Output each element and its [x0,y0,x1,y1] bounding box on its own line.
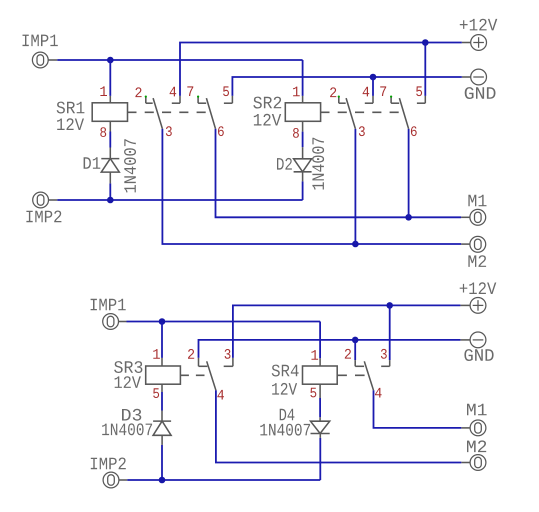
wire SR3 pin1 drop [161,322,163,358]
relay coil SR1 [92,103,127,122]
label M2 (top) [468,255,486,267]
value D3 1N4007 [102,423,152,435]
terminal +12V (bottom) [470,298,486,314]
pin of terminal GND [462,76,471,78]
junction GND/SR4.2 [352,337,359,344]
cathode lead D4 [319,434,321,438]
terminal GND (bottom) [470,332,486,348]
junction GND/SR2.4 [370,74,377,81]
junction M1/SR2.6 [405,214,412,221]
pin 2 foot SR4 [355,365,364,367]
pin 5 stub SR4 [319,384,321,398]
pin number SR1.6 [218,126,224,136]
wire net +12V row (bottom) [233,305,461,358]
pin 5 stub SR2 [424,96,426,103]
wire net IMP1 row (bottom) [127,321,321,323]
junction IMP2/D1 [107,197,114,204]
pin number SR2.2 [330,87,336,97]
wire SR1 pin1 drop [109,60,111,96]
label D4 [280,409,295,421]
pin number SR1.7 [187,86,193,96]
pin number SR1.2 [135,87,141,97]
pin 5 stub SR3 [161,384,163,392]
pin number SR2.6 [411,126,417,136]
pin number SR4.1 [311,350,318,360]
contact arm SR1 7-6 [206,98,215,129]
pin 7 foot SR2 [391,102,399,104]
pin 2 stub SR1 [145,97,147,104]
wire SR2 pin5 drop [424,43,426,96]
pin 1 stub SR3 [161,358,163,366]
pin number SR2.4 [363,87,370,97]
pin 2 foot SR3 [199,365,208,367]
wire net M1 row (top) [216,129,462,218]
mechanical link SR2 [320,111,399,113]
pin number SR2.7 [380,86,386,96]
pin 7 stub SR2 [390,97,392,104]
pin of terminal M1 [461,216,470,218]
value SR2 12V [254,114,281,126]
pin of terminal M1 b [461,427,470,429]
mechanical link SR3 [180,374,204,376]
wire net IMP2 row (top) [57,199,302,201]
pin of terminal IMP1 b [119,321,127,323]
pin of terminal +12V [462,42,471,44]
pin 2 foot SR2 [339,102,346,104]
pin 3 foot SR4 [381,365,390,367]
pin number SR2.3 [359,126,365,136]
pin number SR2.5 [416,86,422,96]
wire SR4 pin1 drop [319,322,321,359]
wire D1 to IMP2 rail [109,183,111,200]
terminal IMP2 (bottom) [103,472,119,488]
wire net IMP2 row (bottom) [127,479,320,481]
cathode lead D3 [161,435,163,445]
wire net M1 row (bottom) [374,390,462,428]
pin number SR2.1 [293,87,300,97]
wire net +12V row (top) [180,43,462,96]
contact arm SR2 7-6 [399,98,408,129]
mechanical link SR1 [127,111,206,113]
label SR1 [57,102,85,114]
pin number SR2.8 [293,128,299,138]
anode lead D3 [161,411,163,422]
pin 8 stub SR2 [302,121,304,131]
pin number SR1.5 [223,86,229,96]
pin 5 stub SR1 [231,96,233,103]
pin number SR4.5 [310,388,316,398]
junction +12V/SR4.3 [386,302,393,309]
pin of terminal IMP1 [48,59,57,61]
diode D1 [101,159,119,173]
pin 7 foot SR1 [198,102,206,104]
pin 5 foot SR2 [417,102,425,104]
wire net GND row (top) [232,77,461,96]
wire SR2 pin3 drop [354,129,356,244]
pin of terminal M2 b [461,462,470,464]
label M2 (bottom) [467,440,486,452]
pin 2 stub SR4 [354,360,356,366]
pin 1 stub SR1 [109,96,111,103]
label SR4 [272,365,299,377]
contact arm SR3 2-4 [207,361,216,390]
pin of terminal GND b [460,339,470,341]
label M1 (bottom) [467,404,487,416]
label D3 [122,409,141,421]
pin number SR3.2 [188,349,194,359]
contact arm SR2 2-3 [346,98,355,129]
pin 4 foot SR1 [172,102,180,104]
value SR3 12V [115,376,141,388]
relay coil SR2 [285,103,320,122]
diode D4 [311,421,330,433]
relay coil SR4 [303,366,338,384]
wire net GND row (bottom) [199,340,461,358]
pin 8 stub SR1 [109,121,111,131]
label GND (top) [465,87,496,99]
wire SR4 pin2 drop [354,340,356,360]
pin 7 stub SR1 [197,97,199,104]
pin 2 stub SR2 [338,97,340,104]
pin 3 stub SR3 [232,358,234,366]
junction IMP1/SR1.1 [107,57,114,64]
pin 3 stub SR4 [389,360,391,366]
pin of terminal IMP2 b [119,479,127,481]
terminal IMP2 (top) [33,192,49,208]
pin 2 tip SR1 [145,96,147,98]
contact arm SR4 2-4 [364,361,373,390]
pin 2 tip SR2 [338,96,340,98]
value SR4 12V [272,383,297,395]
terminal IMP1 (top) [32,52,48,68]
pin number SR4.4 [375,388,382,398]
cathode lead D1 [109,172,111,183]
wire SR2 pin8 to D2 [302,132,304,148]
pin of terminal IMP2 [49,199,58,201]
terminal IMP1 (bottom) [103,314,119,330]
pin number SR1.8 [100,127,106,137]
wire D4 to IMP2 rail [319,438,321,480]
terminal M2 (top) [470,236,486,252]
value D1 1N4007 [124,139,136,192]
pin 4 stub SR2 [372,96,374,103]
pin 7 tip SR2 [390,96,392,98]
pin 4 foot SR2 [365,102,373,104]
pin 2 stub SR3 [198,358,200,366]
pin 5 foot SR1 [224,102,233,104]
label SR2 [253,97,281,109]
pin 4 stub SR1 [179,96,181,103]
contact arm SR1 2-3 [153,98,162,129]
junction +12V/SR2.5 [422,39,429,46]
wire D3 to IMP2 rail [161,445,163,480]
junction IMP1/SR3.1 [159,318,166,325]
label IMP1 (bottom) [91,299,126,311]
pin number SR1.3 [166,126,172,136]
label GND (bottom) [464,349,493,361]
pin number SR4.3 [381,349,387,359]
mechanical link SR4 [337,374,365,376]
pin number SR1.1 [100,86,107,96]
anode lead D1 [109,148,111,159]
pin number SR1.4 [170,87,177,97]
pin number SR3.4 [217,390,224,400]
label IMP2 (top) [26,211,61,223]
label IMP1 (top) [23,35,58,47]
wire SR2 pin1 drop [302,60,304,96]
terminal M2 (bottom) [470,455,486,471]
wire SR4 pin5 to D4 [319,398,321,417]
value SR1 12V [57,118,84,130]
wire SR1 pin8 to D1 [109,132,111,148]
label IMP2 (bottom) [91,458,126,470]
relay coil SR3 [146,366,181,384]
label +12V (bottom) [460,282,497,294]
terminal GND (top) [471,69,487,85]
wire SR4 pin3 drop [389,305,391,360]
wire net IMP1 row (top) [57,59,302,61]
label M1 (top) [468,195,486,207]
terminal M1 (bottom) [470,420,486,436]
label +12V (top) [460,19,498,31]
pin number SR3.3 [225,349,231,359]
pin number SR4.2 [345,349,351,359]
pin 7 tip SR1 [197,96,199,98]
junction IMP2/D3 [159,477,166,484]
value D4 1N4007 [260,424,310,436]
diode D2 [294,159,312,172]
terminal +12V (top) [471,35,487,51]
wire D2 to IMP2 rail [302,181,304,200]
label SR3 [114,361,142,373]
pin number SR3.5 [153,388,159,398]
junction M2/SR2.3 [352,241,359,248]
pin 2 foot SR1 [146,102,153,104]
pin 3 foot SR3 [224,365,233,367]
cathode lead D2 [302,172,304,182]
wire SR2 pin4 drop [372,77,374,96]
anode lead D2 [302,147,304,159]
label D1 [84,157,101,169]
wire net M2 row (bottom) [216,390,461,462]
wire SR2 pin6 drop [408,129,410,218]
pin 1 stub SR2 [302,96,304,103]
pin of terminal +12V b [460,304,470,306]
label D2 [277,158,292,170]
diode D3 [153,421,171,435]
terminal M1 (top) [470,209,486,225]
pin of terminal M2 [461,243,470,245]
anode lead D4 [319,417,321,421]
pin 1 stub SR4 [319,358,321,366]
pin number SR3.1 [153,349,160,359]
wire net M2 row (top) [162,129,461,244]
value D2 1N4007 [312,138,324,190]
wire SR3 pin5 to D3 [161,392,163,411]
